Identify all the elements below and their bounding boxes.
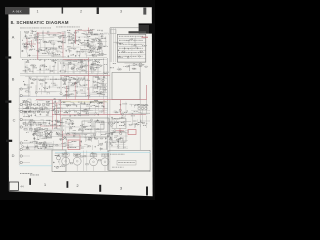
resistor R135 [28, 70, 31, 73]
resistor R13 [43, 40, 46, 43]
capacitor C35 [25, 69, 27, 72]
resistor R175 [66, 85, 67, 88]
capacitor C76 [94, 146, 96, 148]
resistor R224 [104, 132, 107, 135]
pale yellow wire [62, 101, 108, 103]
wire W34 [62, 30, 66, 32]
capacitor C45 [48, 85, 50, 88]
capacitor C38 [24, 66, 26, 68]
resistor R167 [42, 86, 45, 89]
wire W29 [56, 50, 61, 52]
capacitor C91 [124, 123, 126, 126]
diode D24 [66, 105, 69, 108]
speaker jack J7 [20, 155, 22, 157]
wire W309 [125, 102, 127, 116]
wire W282 [126, 64, 138, 66]
wire W278 [63, 103, 76, 105]
transistor Q8 [87, 45, 89, 47]
capacitor C62 [90, 101, 92, 104]
resistor R364 [112, 122, 115, 125]
wire long horizontal row-C2 [19, 109, 109, 111]
resistor R81 [99, 52, 100, 55]
svg-text:3: 3 [120, 10, 122, 14]
resistor R267 [65, 142, 67, 145]
wire W241 [100, 148, 107, 150]
resistor R425 [95, 63, 98, 66]
resistor R65 [84, 43, 87, 46]
wire W108 [60, 70, 65, 72]
wire W122 [72, 67, 74, 73]
power supply unit box [62, 118, 109, 137]
transistor Q33 [78, 113, 80, 115]
capacitor C96 [110, 136, 112, 138]
transistor Q22 [60, 93, 62, 95]
resistor R118 [73, 65, 76, 68]
resistor R80 [72, 34, 73, 37]
wire W288 [129, 103, 131, 105]
diode D36 [79, 144, 82, 147]
resistor R223 [71, 123, 74, 124]
wire W237 [32, 140, 37, 142]
wire W339 [131, 45, 133, 51]
resistor R388 [76, 154, 78, 155]
transistor Q16 [90, 69, 92, 71]
wire W143 [36, 91, 61, 93]
capacitor C34 [82, 66, 84, 69]
wire W366 [100, 89, 107, 91]
red wire input c [25, 43, 36, 45]
resistor R264 [26, 147, 28, 148]
wire speaker blue line left [20, 165, 53, 167]
resistor R117 [90, 66, 92, 69]
resistor R308 [54, 105, 57, 108]
resistor R240 [87, 121, 90, 124]
red wire H7 [40, 125, 61, 127]
resistor R77 [68, 37, 71, 40]
resistor R338 [134, 63, 137, 66]
resistor R138 [74, 83, 76, 84]
wire W40 [47, 33, 59, 35]
red wire H3 bias [60, 74, 110, 76]
wire W154 [102, 81, 104, 91]
diode D20 [38, 87, 41, 90]
resistor R3 [57, 53, 58, 56]
transistor Q40 [72, 120, 74, 122]
svg-text:1: 1 [37, 9, 39, 13]
resistor R419 [68, 61, 69, 64]
resistor R181 [78, 79, 81, 82]
wire W72 [89, 32, 92, 34]
wire W111 [61, 63, 87, 65]
diode D9 [89, 49, 92, 52]
resistor R236 [72, 129, 75, 132]
resistor R443 [67, 94, 69, 95]
wire W307 [137, 119, 139, 126]
resistor R171 [95, 83, 97, 86]
resistor R391 [58, 155, 60, 156]
resistor R56 [90, 28, 91, 31]
capacitor C92 [131, 113, 133, 115]
svg-text:A: A [12, 35, 15, 40]
resistor R263 [71, 146, 72, 149]
transistor Q66 [73, 135, 75, 137]
capacitor C37 [64, 70, 66, 73]
wire W345 [98, 131, 107, 133]
wire W188 [69, 110, 91, 112]
resistor strip row C2 [26, 108, 29, 109]
wire drop W6 [53, 65, 55, 73]
red drop wire b [74, 82, 76, 100]
wire W289 [136, 123, 141, 125]
resistor R298 [35, 130, 38, 133]
red wire V4 right edge [146, 85, 148, 100]
wire W284 [131, 64, 141, 66]
wire W33 [56, 50, 58, 52]
capacitor C23 [78, 37, 80, 39]
terminal row 3 [118, 46, 146, 48]
resistor R187 [47, 101, 49, 102]
resistor R126 [26, 62, 29, 63]
wire W276 [72, 104, 77, 106]
capacitor C86 [98, 46, 100, 48]
wire W316 [108, 146, 128, 148]
wire W116 [37, 69, 57, 71]
resistor R382 [123, 146, 124, 149]
resistor R125 [89, 67, 92, 70]
svg-text:D: D [12, 153, 15, 158]
resistor R281 [88, 139, 90, 140]
resistor R252 [46, 119, 47, 122]
resistor R144 [50, 82, 53, 85]
red wire V6c [60, 100, 62, 126]
resistor R158 [64, 84, 66, 85]
transistor Q17 [100, 65, 102, 67]
resistor R306 [58, 110, 59, 113]
red wire terminal feed [142, 36, 149, 38]
capacitor C105 [94, 136, 96, 139]
wire W323 [123, 143, 125, 149]
wire W324 [106, 143, 108, 149]
wire W285 [129, 64, 131, 71]
wire W121 [24, 61, 26, 73]
input jack J1 [20, 103, 22, 105]
resistor R257 [30, 123, 31, 126]
resistor R413 [71, 68, 73, 69]
schematic caption row 2 [55, 26, 58, 29]
capacitor C81 [32, 133, 34, 136]
wire W305 [132, 115, 134, 125]
wire W191 [68, 109, 70, 117]
resistor R215 [64, 111, 65, 114]
resistor R54 [75, 40, 78, 43]
wire drop W9 [67, 63, 69, 74]
resistor R351 [121, 121, 122, 124]
red wire H5 B- rail [52, 113, 146, 115]
capacitor C68 [70, 119, 72, 122]
transistor Q46 [33, 138, 35, 140]
resistor R102 [92, 53, 93, 56]
resistor R6 [63, 36, 64, 39]
wire W259 [38, 133, 40, 140]
resistor R83 [81, 32, 84, 35]
wire horizontal to PSU [20, 120, 62, 122]
terminal strip box TB1 [117, 34, 145, 62]
wire W75 [83, 42, 87, 44]
capacitor C108 [92, 64, 94, 66]
wire W277 [70, 101, 74, 103]
diode D45 [126, 110, 129, 113]
resistor R63 [80, 41, 81, 44]
resistor R269 [99, 142, 100, 145]
wire W73 [89, 50, 93, 52]
wire W138 [38, 91, 56, 93]
transistor Q64 [64, 136, 66, 138]
wire W269 [89, 40, 93, 42]
resistor R176 [62, 86, 63, 89]
capacitor C2 [29, 54, 31, 56]
wire W147 [76, 78, 78, 88]
capacitor C78 [99, 147, 101, 150]
resistor R177 [99, 91, 102, 94]
wire W49 [44, 46, 57, 48]
resistor R290 [24, 139, 25, 142]
resistor R400 [140, 51, 142, 52]
resistor R169 [56, 87, 59, 90]
wire W204 [82, 125, 96, 127]
wire W134 [76, 80, 79, 82]
resistor R162 [73, 89, 76, 92]
transistor Q48 [94, 47, 96, 49]
capacitor C25 [89, 46, 91, 49]
wire W56 [64, 31, 66, 40]
wire W151 [29, 91, 31, 96]
wire W308 [141, 110, 143, 122]
capacitor C95 [111, 144, 113, 147]
wire W330 [93, 153, 107, 155]
wire W39 [32, 55, 61, 57]
wire W280 [71, 104, 88, 106]
resistor R57 [74, 40, 77, 41]
wire drop W17 [36, 76, 38, 91]
capacitor C101 [124, 47, 126, 50]
resistor R39 [32, 30, 33, 33]
resistor R409 [83, 133, 86, 136]
wire W267 [54, 101, 56, 109]
wire W227 [59, 126, 61, 137]
transistor Q54 [110, 125, 112, 127]
svg-text:2: 2 [76, 184, 78, 188]
resistor R242 [44, 132, 47, 135]
label POWER TRANSFORMER [117, 160, 136, 165]
resistor R426 [103, 72, 106, 75]
wire W266 [54, 101, 56, 106]
resistor R153 [45, 75, 48, 78]
resistor R292 [35, 134, 37, 135]
capacitor C11 [28, 55, 30, 57]
wire W200 [36, 101, 38, 106]
wire W258 [39, 134, 52, 136]
resistor R108 [97, 42, 98, 45]
resistor R243 [36, 126, 39, 129]
relay coil [57, 156, 61, 160]
capacitor C90 [111, 117, 113, 119]
wire W70 [82, 44, 85, 46]
wire relay feed 2 [23, 146, 52, 148]
wire W30 [52, 52, 55, 54]
wire W256 [40, 138, 52, 140]
resistor R33 [59, 36, 61, 37]
wire W332 [93, 153, 95, 158]
wire W189 [27, 105, 29, 110]
wire W229 [38, 127, 40, 134]
capacitor C20 [74, 41, 76, 43]
wire W328 [118, 142, 120, 149]
capacitor C18 [67, 55, 69, 57]
resistor R226 [100, 123, 101, 126]
resistor R155 [63, 79, 65, 82]
resistor R297 [46, 135, 47, 138]
resistor R295 [35, 129, 36, 132]
terminal row 2 [118, 42, 146, 44]
capacitor C22 [92, 54, 94, 57]
resistor R405 [92, 134, 95, 137]
wire W331 [61, 152, 63, 157]
resistor R170 [69, 76, 72, 79]
capacitor C102 [116, 43, 118, 45]
resistor R11 [24, 31, 25, 34]
capacitor C10 [58, 46, 60, 49]
emitter resistor RE3 [86, 164, 88, 165]
resistor R229 [73, 132, 74, 135]
wire W353 [92, 67, 100, 69]
resistor R435 [84, 79, 87, 82]
resistor R208 [96, 105, 97, 108]
capacitor C4 [25, 34, 27, 37]
resistor R166 [64, 75, 65, 78]
capacitor C40 [88, 60, 90, 63]
wire W131 [44, 91, 48, 93]
wire W205 [73, 134, 87, 136]
resistor R237 [80, 124, 81, 127]
resistor R301 [41, 137, 44, 140]
capacitor C64 [88, 107, 90, 110]
wire W123 [93, 63, 95, 73]
resistor R233 [97, 129, 99, 130]
emitter resistor RE2 [84, 156, 86, 157]
wire vertical x103 [103, 58, 105, 99]
resistor R293 [44, 135, 47, 138]
diode D41 [58, 124, 61, 127]
wire W348 [91, 136, 93, 142]
resistor R92 [97, 42, 100, 45]
transistor Q7 [47, 31, 49, 33]
red wire V10 rail link [120, 100, 122, 115]
wire W333 [133, 45, 136, 47]
wire W83 [84, 33, 107, 35]
wire W110 [52, 60, 76, 62]
wire W230 [30, 122, 32, 132]
transformer T1 X-mark [47, 132, 52, 137]
wire W146 [25, 76, 46, 78]
red fuse block [68, 140, 80, 150]
resistor R438 [62, 79, 63, 82]
transistor Q24 [103, 76, 105, 78]
wire W92 [84, 40, 86, 47]
wire W38 [35, 33, 39, 35]
wire vertical right-b [113, 28, 115, 62]
capacitor C111 [74, 84, 76, 86]
resistor R27 [35, 40, 37, 41]
resistor R78 [66, 35, 69, 38]
resistor R261 [58, 121, 61, 124]
wire W69 [89, 54, 94, 56]
wire W304 [141, 113, 150, 115]
capacitor C16 [99, 48, 101, 50]
wire W37 [46, 33, 49, 35]
resistor R47 [53, 53, 54, 56]
resistor R122 [51, 60, 54, 63]
resistor R447 [56, 167, 58, 168]
wire W97 [105, 36, 107, 46]
resistor R411 [89, 139, 91, 140]
resistor R21 [58, 40, 59, 43]
resistor R22 [48, 39, 51, 42]
resistor R152 [26, 91, 28, 92]
resistor R330 [77, 101, 80, 104]
diode D21 [36, 103, 39, 106]
wire W203 [66, 126, 82, 128]
wire drop W5 [49, 65, 51, 73]
wire W365 [98, 85, 107, 87]
rectifier box B [94, 121, 104, 129]
transistor Q10 [93, 39, 95, 41]
capacitor C7 [22, 50, 24, 52]
wire W62 [26, 53, 28, 57]
resistor R207 [29, 103, 30, 106]
wire W137 [90, 85, 107, 87]
resistor R69 [74, 31, 76, 34]
resistor R318 [91, 41, 92, 44]
input jack J2 [20, 110, 22, 112]
resistor R272 [48, 145, 51, 148]
transistor Q59 [114, 130, 116, 132]
wire drop W8 [61, 65, 63, 73]
resistor R307 [60, 121, 61, 124]
resistor R228 [101, 122, 104, 123]
wire W301 [131, 109, 150, 111]
transistor Q57 [121, 113, 123, 115]
transistor Q51 [97, 102, 99, 104]
resistor R227 [65, 118, 68, 121]
resistor R439 [67, 87, 68, 90]
diode D15 [22, 80, 25, 83]
rectifier box A [82, 121, 92, 129]
wire right bus [139, 62, 141, 150]
wire drop W21 [68, 76, 70, 91]
resistor R247 [38, 128, 41, 131]
wire W95 [101, 41, 103, 53]
red wire V5 [103, 100, 105, 115]
resistor R212 [68, 110, 69, 113]
wire W337 [133, 38, 135, 42]
wire W226 [57, 131, 59, 137]
resistor R146 [73, 77, 75, 80]
diode D18 [86, 88, 89, 91]
wire W275 [101, 50, 103, 55]
capacitor C106 [65, 138, 67, 140]
resistor R150 [45, 82, 47, 83]
capacitor C49 [24, 83, 26, 86]
